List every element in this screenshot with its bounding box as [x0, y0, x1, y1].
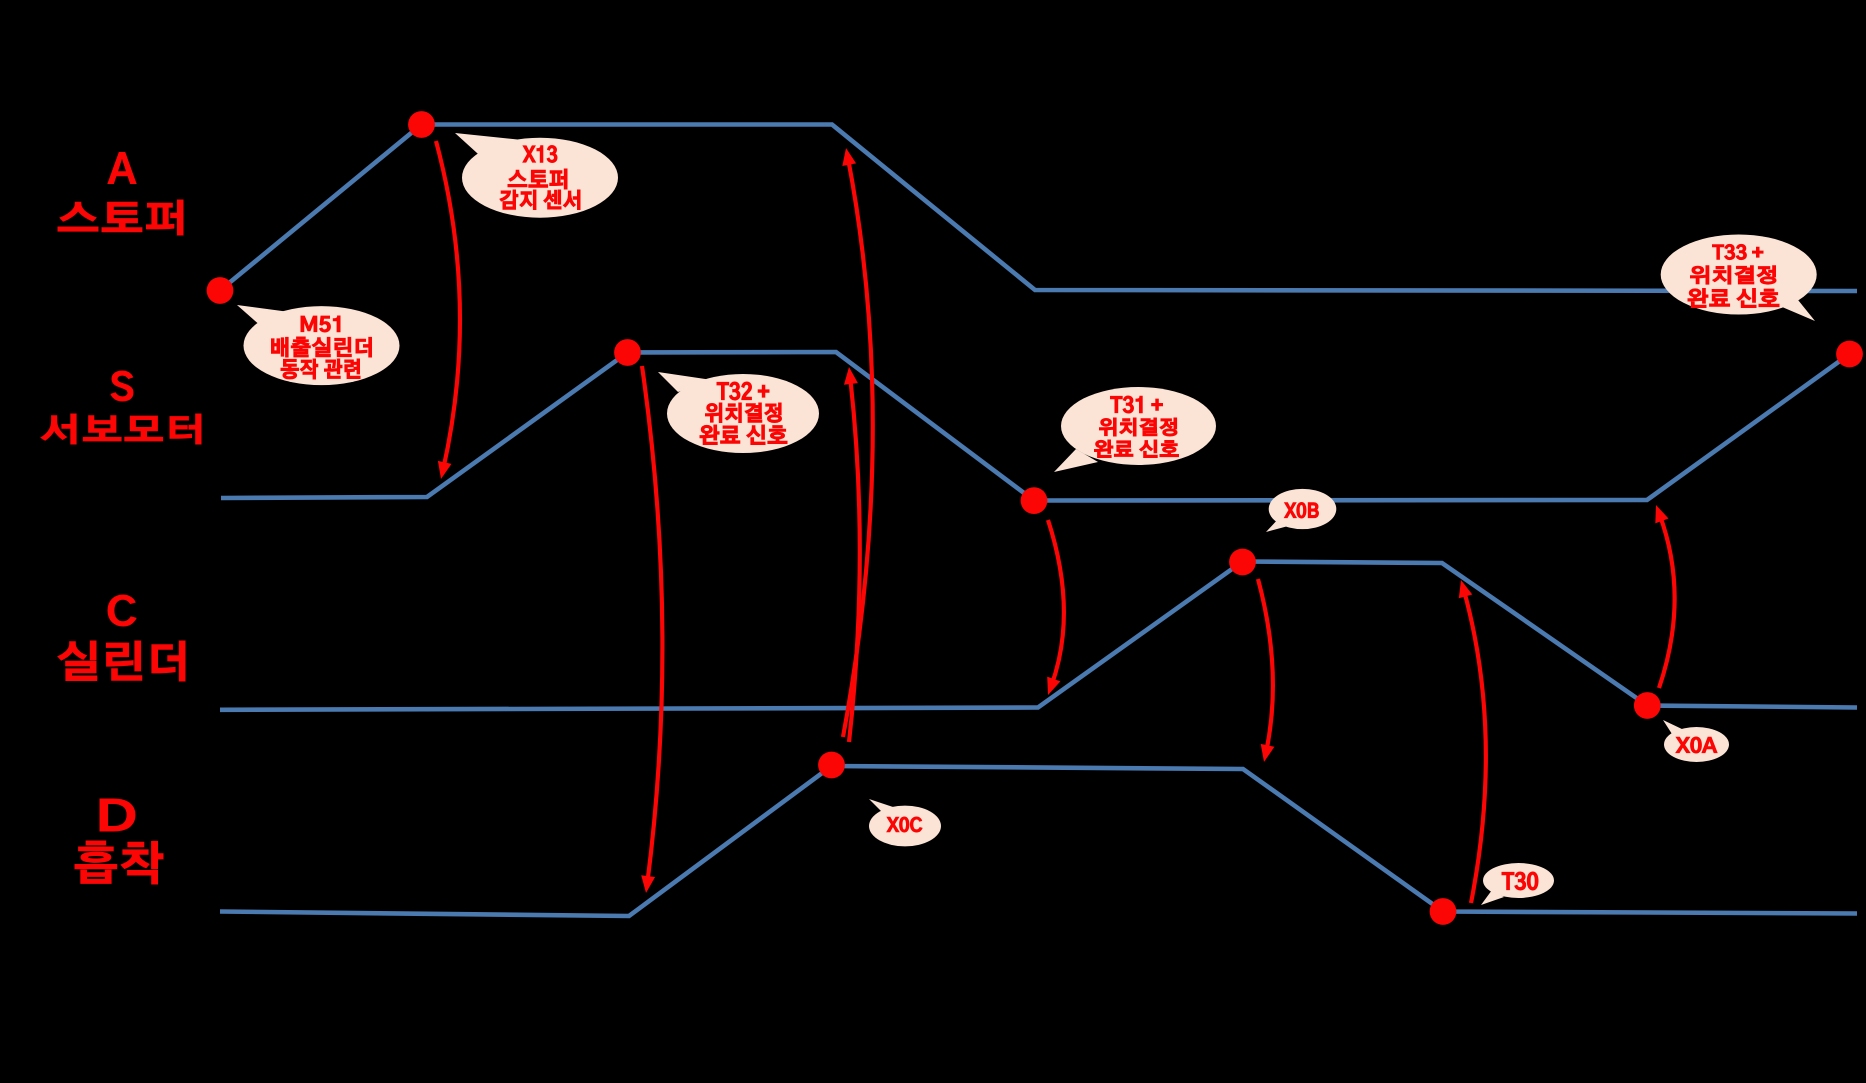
text row label C kor: 실린더: [58, 641, 185, 681]
text X13 text 2: 스토퍼: [508, 169, 567, 189]
arrow 6 (X0B to D fall): [1258, 579, 1274, 762]
text X0C text: X0C: [887, 817, 922, 832]
text X0B text: X0B: [1285, 503, 1319, 519]
text T32 text 3: 완료 신호: [700, 425, 787, 445]
node A2 X13: [408, 111, 435, 138]
text T33 text 2: 위치결정: [1691, 266, 1777, 284]
text row label D kor: 흡착: [75, 841, 163, 884]
node D2 T30: [1430, 898, 1457, 925]
text T31 text 3: 완료 신호: [1095, 440, 1179, 458]
node D1 X0C: [818, 752, 845, 779]
wire waveform A (stopper): [220, 125, 1857, 292]
callout T31: [1054, 387, 1216, 472]
arrow 4 (X0C to S fall): [844, 367, 860, 742]
arrow 3 (X0C to A fall): [842, 148, 872, 737]
wire waveform S (servo motor): [221, 352, 1850, 501]
node A1 M51: [207, 277, 234, 304]
text T33 text 3: 완료 신호: [1688, 289, 1779, 308]
text row label S kor: 서보모터: [41, 414, 201, 444]
node S1 T32: [614, 339, 641, 366]
arrow 7 (T30 to C fall): [1459, 580, 1486, 903]
text row label S: S: [111, 371, 133, 401]
callout X0A: [1663, 720, 1729, 762]
callout X0C: [869, 799, 941, 846]
text row label C: C: [108, 595, 136, 626]
text T30 text: T30: [1502, 872, 1538, 890]
arrow 2 (T32 to D start): [641, 366, 662, 893]
text T32 text 1: T32 +: [717, 382, 769, 400]
node C1 X0B: [1229, 549, 1256, 576]
callout T30: [1481, 863, 1554, 905]
text M51 text 1: M51: [301, 316, 340, 332]
node S3 T33: [1836, 341, 1863, 368]
arrow 1 (X13 rise to S start): [436, 141, 460, 479]
text T31 text 2: 위치결정: [1100, 418, 1178, 436]
text T31 text 1: T31 +: [1111, 396, 1163, 413]
text row label D: D: [100, 799, 135, 831]
callout X0B: [1266, 489, 1336, 532]
wire waveform C (cylinder): [220, 562, 1857, 710]
callout T32: [658, 372, 819, 453]
callout M51: [237, 305, 400, 385]
text T32 text 2: 위치결정: [706, 403, 782, 423]
node S2 T31: [1021, 487, 1048, 514]
arrow 8 (X0A to S rise): [1655, 505, 1674, 688]
text T33 text 1: T33 +: [1713, 244, 1764, 259]
callout X13: [455, 133, 618, 218]
text M51 text 3: 동작 관련: [281, 359, 360, 379]
wire waveform D (suction): [220, 766, 1857, 916]
callout T33: [1661, 235, 1817, 322]
text row label A: A: [108, 153, 136, 184]
text X13 text 3: 감지 센서: [500, 190, 580, 210]
text X0A text: X0A: [1676, 737, 1717, 753]
text row label A kor: 스토퍼: [58, 200, 183, 235]
text X13 text 1: X13: [523, 146, 557, 163]
arrow 5 (T31 to C rise): [1047, 520, 1064, 695]
text M51 text 2: 배출실린더: [272, 337, 372, 357]
node C2 X0A: [1634, 692, 1661, 719]
